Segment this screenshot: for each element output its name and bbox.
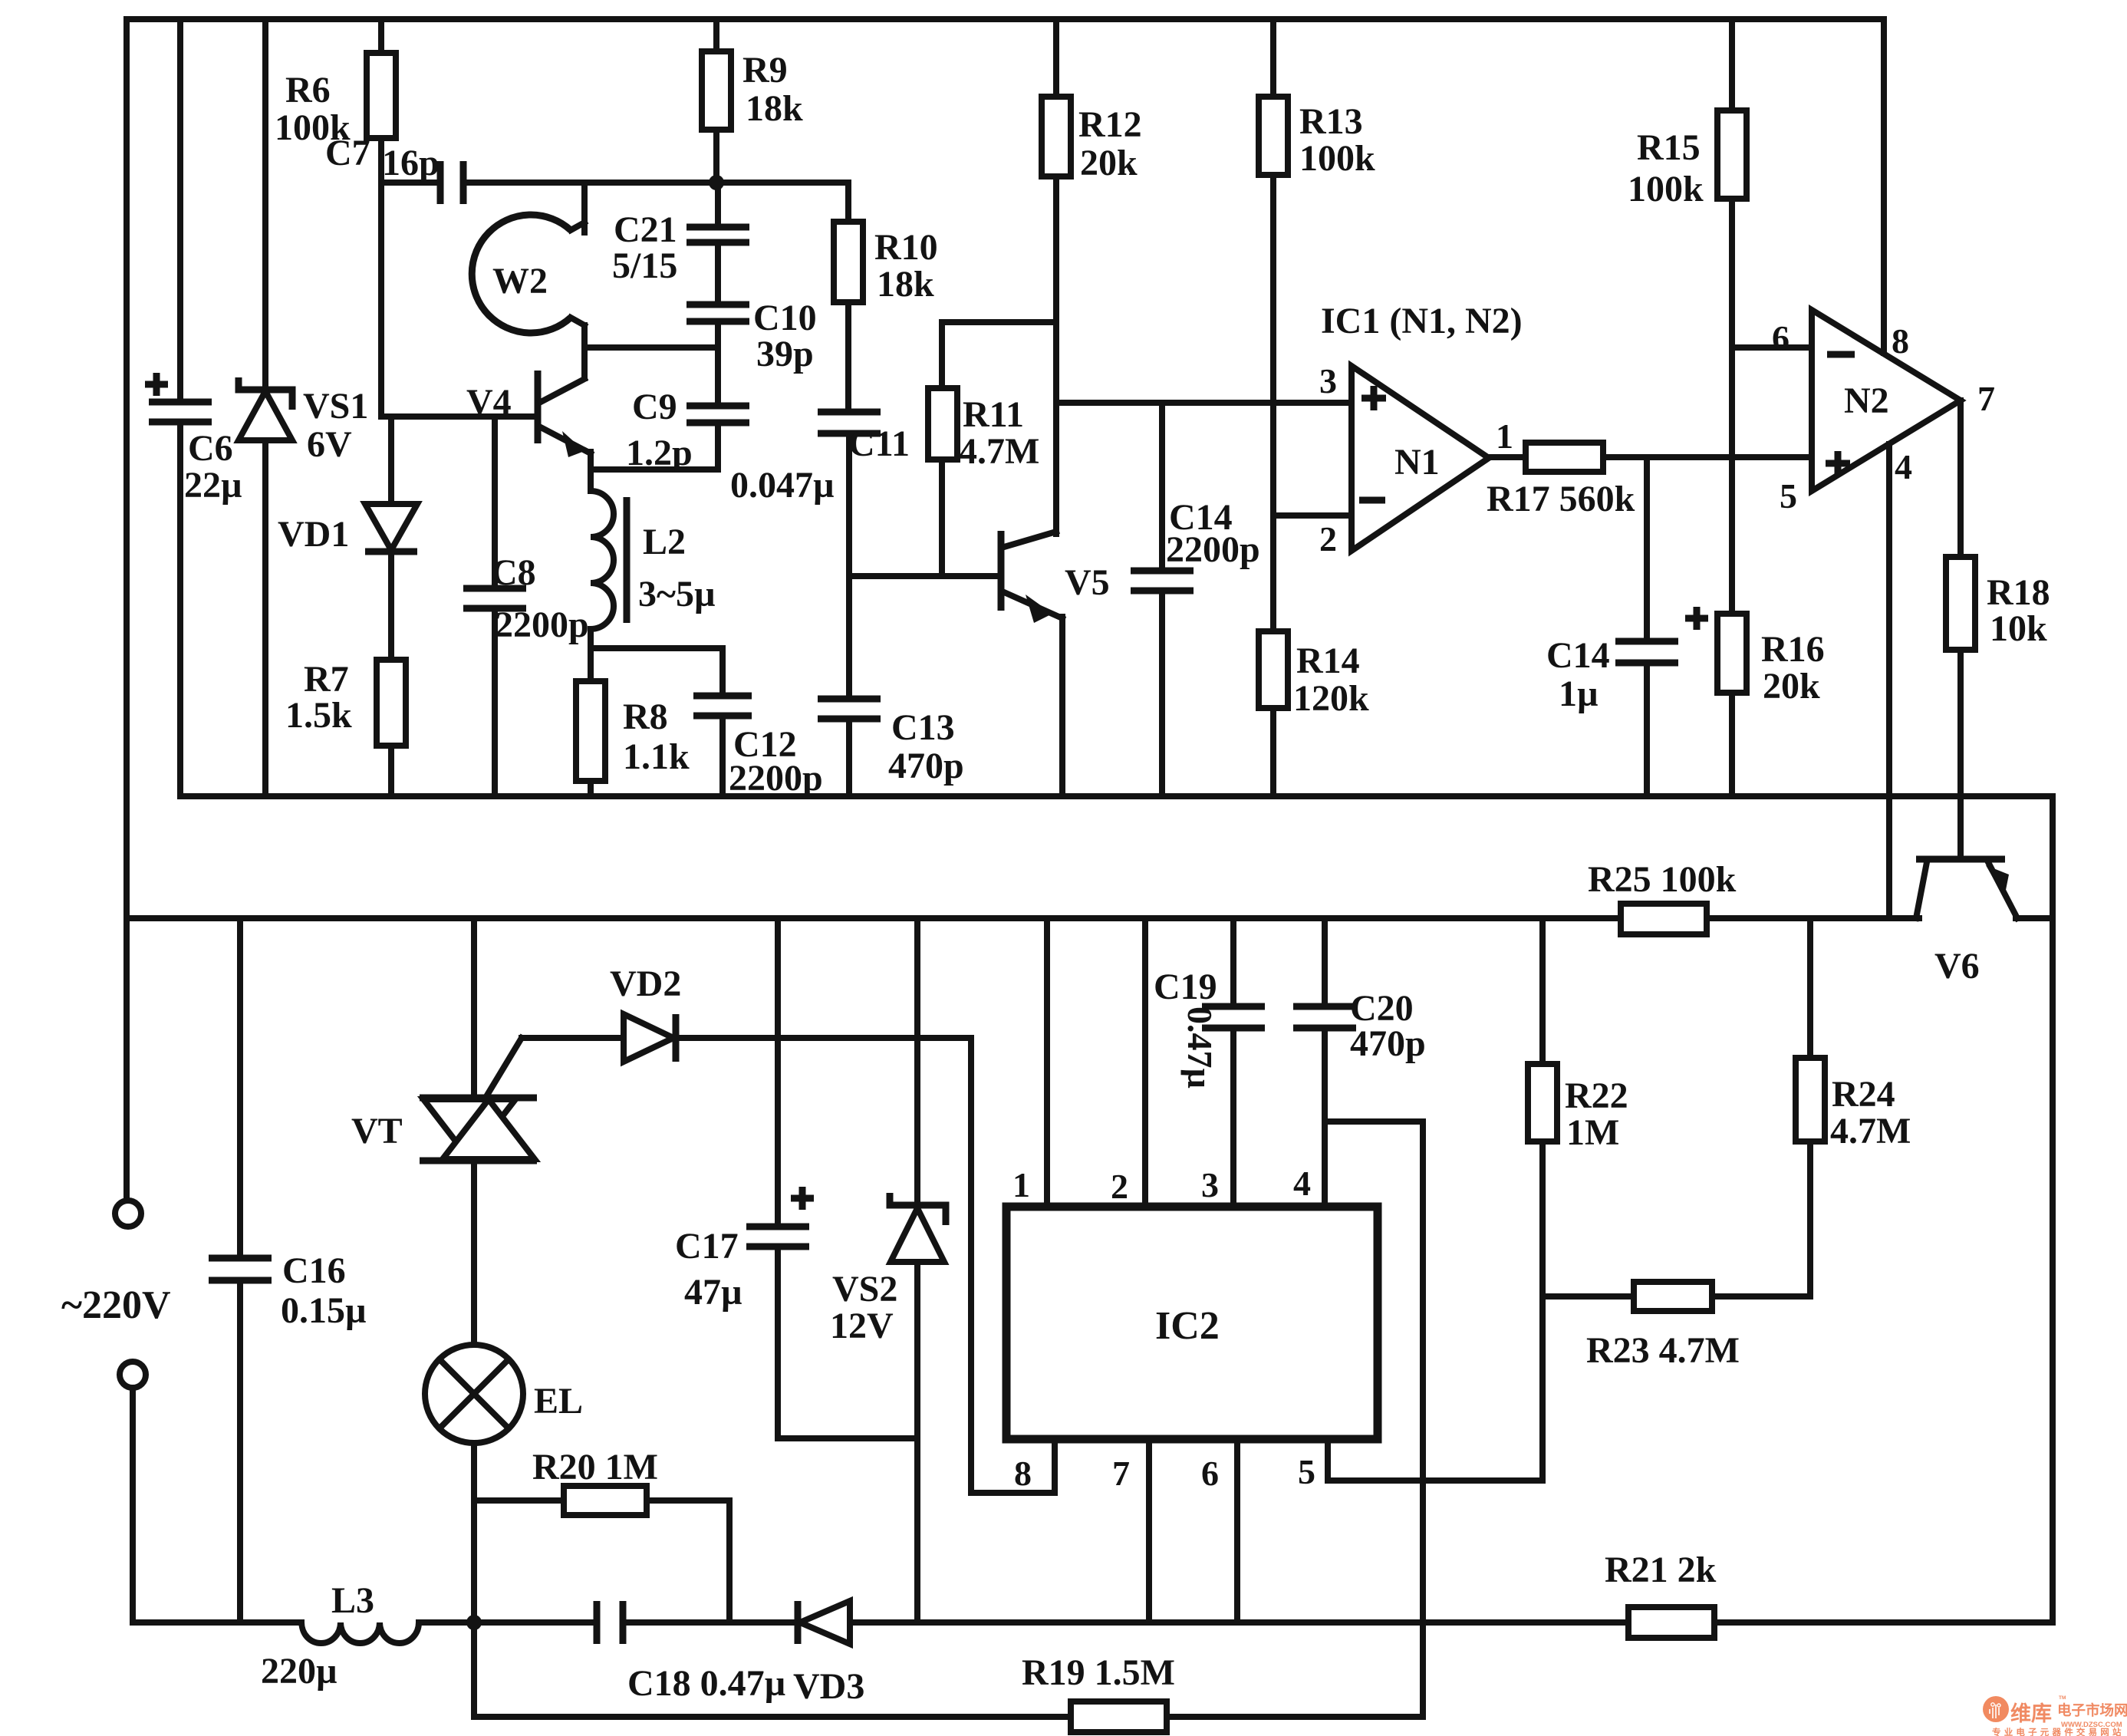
wire R20 to C18 node [726,1500,733,1622]
svg-text:C10: C10 [753,298,817,338]
svg-text:V6: V6 [1934,946,1980,987]
svg-text:C7: C7 [325,133,370,173]
resistor R20 [474,1486,729,1515]
wire top supply rail [127,16,1884,22]
svg-text:C6: C6 [188,428,233,469]
wire V5 base [849,573,1001,579]
diode VD3 [798,1601,1628,1644]
C14 2200p label [1166,497,1260,570]
svg-text:VS2: VS2 [832,1269,897,1309]
svg-text:2200p: 2200p [729,758,823,799]
svg-text:100k: 100k [1628,169,1704,209]
C8 label [491,552,589,645]
resistor R6 [367,19,396,417]
resistor R24 [1796,918,1825,1296]
svg-text:2: 2 [1319,519,1337,558]
IC2 pin1 wire [1044,918,1050,1207]
svg-text:R23 4.7M: R23 4.7M [1586,1330,1740,1371]
svg-text:1.2p: 1.2p [626,433,693,473]
inductor L3 [301,1622,474,1643]
svg-text:N2: N2 [1844,380,1889,421]
svg-text:20k: 20k [1763,666,1820,707]
R7 label [285,659,352,736]
wire W2/V4 collector to C10-C9 node [584,325,718,378]
node junction dot R9/C7/C21 [709,175,724,190]
R14 label [1293,641,1369,719]
svg-text:专业电子元器件交易网站: 专业电子元器件交易网站 [1992,1727,2125,1736]
capacitor C18 [474,1601,796,1644]
svg-text:VD3: VD3 [793,1666,864,1707]
C10 label [753,298,817,374]
svg-text:5: 5 [1298,1452,1315,1491]
svg-text:维库: 维库 [2010,1702,2052,1725]
svg-text:R15: R15 [1637,127,1701,168]
svg-text:C21: C21 [614,209,677,250]
resistor R18 [1946,400,1975,859]
resistor R14 [1259,631,1288,796]
svg-text:0.15µ: 0.15µ [281,1290,367,1331]
svg-text:VD1: VD1 [278,514,349,555]
op-amp N2 [1812,310,1961,491]
svg-text:10k: 10k [1990,608,2047,649]
svg-text:R24: R24 [1832,1074,1895,1115]
L2 label [638,522,716,614]
svg-text:C18 0.47µ: C18 0.47µ [627,1663,785,1704]
svg-text:R8: R8 [623,697,668,737]
svg-text:8: 8 [1892,321,1909,361]
lamp EL [425,1345,523,1622]
svg-text:6: 6 [1201,1454,1219,1493]
wire left border [123,19,130,1201]
capacitor C10 [687,242,749,348]
svg-text:22µ: 22µ [184,465,242,506]
capacitor C14 1µ [1615,457,1678,796]
capacitor C19 [1202,918,1265,1207]
svg-text:8: 8 [1014,1454,1032,1493]
L3 label [261,1580,374,1692]
resistor R12 [1042,19,1071,403]
R15 label [1628,127,1704,209]
wire C17 bottom jog [778,1435,917,1441]
resistor R10 [834,183,863,412]
resistor R15 [1717,19,1747,348]
IC2 pin2 wire [1142,918,1148,1207]
svg-text:C13: C13 [891,707,955,748]
svg-text:C16: C16 [282,1250,346,1291]
IC2 pin7 wire [1146,1439,1152,1622]
svg-text:18k: 18k [877,264,934,305]
terminal upper 220V [115,1201,141,1227]
IC2 pin8 wire [1052,1439,1058,1493]
transistor V6 [1916,859,2017,918]
resistor R21 [1628,1607,2053,1638]
resistor R19 [1071,1701,1423,1732]
svg-text:R11: R11 [963,394,1024,435]
svg-text:470p: 470p [888,746,964,786]
svg-text:16p: 16p [382,143,440,183]
svg-text:6V: 6V [307,424,352,465]
svg-text:3~5µ: 3~5µ [638,574,716,614]
resistor R9 [702,19,731,183]
R13 label [1299,101,1375,179]
R6 label [275,70,351,148]
svg-text:R13: R13 [1299,101,1363,142]
svg-text:39p: 39p [756,334,814,374]
transistor V5 [1001,403,1062,796]
svg-text:R18: R18 [1987,572,2050,613]
C9 label [626,387,693,473]
svg-text:1M: 1M [1566,1112,1619,1153]
R18 label [1987,572,2050,649]
capacitor C20 [1293,918,1356,1207]
C6 polarity plus [145,373,168,396]
wire N2 pin4 to lower rail [1886,444,1892,918]
wire VD2 to IC2 pin8 [971,1038,1055,1493]
svg-text:R22: R22 [1565,1076,1628,1116]
capacitor C11 [818,412,881,576]
svg-text:R17 560k: R17 560k [1487,479,1635,519]
diode VD2 [486,1014,971,1098]
C19 label [1154,967,1220,1089]
svg-text:7: 7 [1112,1454,1130,1493]
svg-text:C17: C17 [675,1226,739,1267]
resistor R8 [576,652,605,796]
diode VD1 [365,417,417,660]
wire right border lower segment [2050,918,2056,1622]
svg-text:VS1: VS1 [303,386,368,427]
svg-text:R21 2k: R21 2k [1605,1550,1717,1590]
svg-text:4.7M: 4.7M [959,431,1039,472]
R9 label [742,50,803,129]
svg-text:C9: C9 [632,387,677,427]
wire C7 node to R10 [716,180,848,186]
capacitor C14 2200p [1131,403,1194,796]
svg-text:3: 3 [1319,361,1337,400]
C14 1µ label [1546,635,1610,714]
svg-text:R6: R6 [285,70,331,110]
zener VS2 [890,918,946,1622]
resistor R23 [1543,1282,1810,1311]
svg-text:2: 2 [1111,1167,1128,1206]
wire V4 base [384,413,538,420]
microphone W2 [472,183,584,333]
svg-text:IC1 (N1, N2): IC1 (N1, N2) [1321,301,1523,341]
wire N2 pin6 input [1732,344,1812,351]
capacitor C21 [687,183,749,242]
capacitor C9 [687,348,749,469]
svg-text:5/15: 5/15 [612,245,677,286]
svg-text:4: 4 [1293,1164,1311,1203]
svg-text:VT: VT [351,1111,403,1151]
svg-text:120k: 120k [1293,678,1369,719]
R22 label [1565,1076,1628,1153]
svg-text:R12: R12 [1078,104,1142,145]
C6 value label [184,428,242,506]
svg-text:0.047µ: 0.047µ [730,465,835,506]
svg-text:1: 1 [1012,1165,1030,1204]
wire pin4/C20 jog to R19 rail [1325,1122,1423,1717]
C21 label [612,209,677,286]
wire emitter node to C9 bottom [591,466,718,473]
C17 polarity plus [791,1187,814,1210]
svg-text:2200p: 2200p [495,604,589,645]
svg-text:7: 7 [1977,379,1995,418]
capacitor C13 [818,576,881,796]
resistor R25 [1621,904,1707,934]
svg-text:220µ: 220µ [261,1651,337,1692]
wire lower section supply rail mid part [1707,915,1919,921]
svg-text:W2: W2 [492,261,548,301]
C16 label [281,1250,367,1331]
VS1 label [303,386,368,465]
resistor R11 [928,322,1056,576]
capacitor C7 [381,161,716,204]
svg-text:5: 5 [1780,476,1797,516]
watermark text [1992,1695,2127,1736]
R24 label [1830,1074,1911,1151]
capacitor C16 [209,918,272,1622]
svg-text:TM: TM [2059,1695,2066,1701]
svg-text:20k: 20k [1080,143,1138,183]
svg-text:1: 1 [1496,417,1513,456]
wire N1 pin2 input [1273,512,1352,519]
svg-text:1µ: 1µ [1559,674,1599,714]
node junction dot EL/L3/C18 [466,1615,482,1630]
svg-text:4: 4 [1895,447,1912,486]
svg-text:4.7M: 4.7M [1830,1111,1911,1151]
svg-text:C11: C11 [848,423,910,464]
svg-text:C8: C8 [491,552,536,593]
wire right border upper segment [2050,796,2056,918]
wire lower section supply rail right part [2016,915,2053,921]
svg-text:47µ: 47µ [684,1272,742,1313]
zener VS1 [239,19,292,796]
svg-text:R9: R9 [742,50,788,91]
svg-text:R10: R10 [874,227,938,268]
IC IC2 box [1006,1207,1378,1439]
wire bottom R19 rail [474,1622,1071,1717]
svg-text:3: 3 [1201,1165,1219,1204]
svg-text:R7: R7 [304,659,349,700]
capacitor C8 [463,417,526,796]
svg-text:V5: V5 [1065,562,1110,603]
svg-text:R16: R16 [1761,629,1825,670]
C13 label [888,707,964,786]
svg-text:EL: EL [534,1381,583,1421]
wire L2/R8 node to C12 [591,645,723,651]
capacitor C17 [746,918,809,1438]
svg-text:0.47µ: 0.47µ [1180,1006,1220,1089]
resistor R22 [1528,918,1557,1481]
svg-text:电子市场网: 电子市场网 [2057,1702,2127,1718]
C11 label [730,423,910,506]
svg-text:VD2: VD2 [610,964,681,1004]
svg-text:C14: C14 [1546,635,1610,676]
svg-text:1.5k: 1.5k [285,695,352,736]
watermark logo [1983,1696,2009,1722]
IC2 pin5 wire [1328,1439,1543,1481]
svg-text:100k: 100k [1299,138,1375,179]
C14 1µ polarity plus [1685,607,1708,630]
svg-text:R25 100k: R25 100k [1588,859,1737,900]
R12 label [1078,104,1142,183]
resistor R17 [1489,443,1812,472]
svg-text:6: 6 [1772,318,1790,357]
transistor V4 [538,371,591,469]
C7 label [325,133,440,183]
wire N1 pin3 input [1056,400,1352,406]
capacitor C6 [149,19,212,796]
wire bottom rail of top section [180,793,2053,799]
R16 label [1761,629,1825,707]
svg-text:R19 1.5M: R19 1.5M [1022,1652,1175,1693]
C17 label [675,1226,742,1313]
C20 label [1350,988,1426,1064]
wire lower section supply rail left part [127,915,1621,921]
svg-text:1.1k: 1.1k [623,736,690,777]
svg-text:18k: 18k [746,88,803,129]
svg-text:~220V: ~220V [61,1283,171,1327]
capacitor C12 [693,648,752,796]
svg-text:R14: R14 [1296,641,1360,681]
svg-text:L3: L3 [331,1580,374,1621]
IC2 pin6 wire [1234,1439,1240,1622]
svg-text:IC2: IC2 [1155,1304,1220,1348]
R11 label [959,394,1039,472]
R8 label [623,697,690,777]
resistor R7 [377,660,406,796]
svg-text:470p: 470p [1350,1023,1426,1064]
svg-text:12V: 12V [830,1306,894,1346]
terminal lower 220V [120,1362,301,1622]
wire N2 pin8 to top rail [1881,19,1887,353]
svg-text:L2: L2 [643,522,686,562]
svg-text:C19: C19 [1154,967,1217,1007]
resistor R13 [1259,19,1288,631]
svg-text:R20 1M: R20 1M [532,1447,658,1487]
resistor R16 [1717,348,1747,796]
inductor L2 [591,469,627,652]
op-amp N1 [1352,366,1489,551]
VS2 label [830,1269,897,1346]
triac VT [420,918,537,1345]
R10 label [874,227,938,305]
svg-text:N1: N1 [1394,442,1440,483]
C12 label [729,724,823,799]
svg-text:2200p: 2200p [1166,529,1260,570]
